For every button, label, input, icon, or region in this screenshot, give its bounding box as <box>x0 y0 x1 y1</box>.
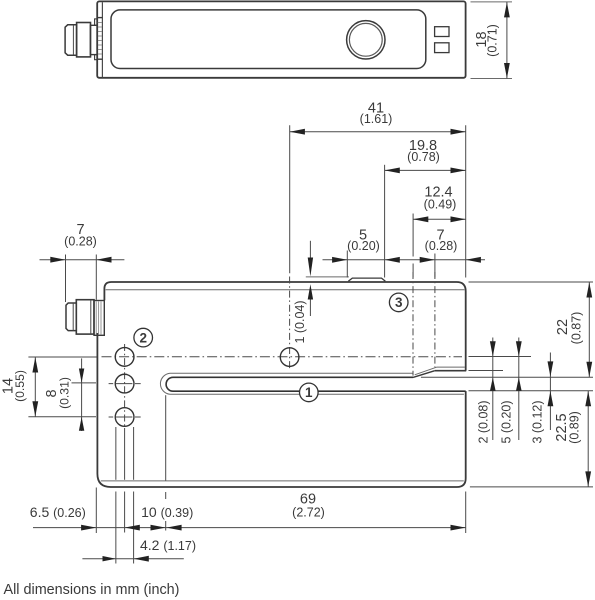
svg-text:5 (0.20): 5 (0.20) <box>500 400 514 443</box>
front view inner bottom seam line <box>101 480 464 482</box>
svg-text:(0.49): (0.49) <box>424 197 457 211</box>
front view connector nut <box>76 300 94 334</box>
extension line connector cap left <box>65 255 67 303</box>
dimension 2 line <box>492 338 494 441</box>
dimension 19.8 line <box>385 169 466 171</box>
svg-text:(0.71): (0.71) <box>486 24 500 57</box>
svg-text:All dimensions in mm (inch): All dimensions in mm (inch) <box>4 582 180 598</box>
svg-text:4.2 (1.17): 4.2 (1.17) <box>140 537 196 553</box>
front view bump extension thin line <box>306 276 349 278</box>
dimension 18 (0.71) line <box>506 2 508 79</box>
dimension 18 (0.71) extension line bottom <box>471 78 513 80</box>
dimension 1 (0.04) upper arrow line <box>309 241 311 259</box>
front view lower body outline (right edge + bottom + left edge) <box>97 333 465 487</box>
top view housing outline <box>97 1 465 77</box>
top view connector cap inner line <box>72 25 74 55</box>
extension line hole centre down <box>124 428 126 480</box>
dimension 69 left arrow (pointing left at slot line) <box>166 525 181 531</box>
front view inner top seam line <box>106 289 465 291</box>
front view mouth inner thin line <box>437 366 465 368</box>
svg-text:2: 2 <box>139 330 147 345</box>
mounting hole centerline vertical <box>124 344 126 428</box>
front view reference bump on top edge <box>348 278 385 281</box>
extension line hole tangent right <box>133 427 135 480</box>
dimension 10 right arrow (pointing right at slot line) <box>151 525 166 531</box>
dimension 3 arrows <box>548 361 554 376</box>
mounting hole 3 <box>115 408 134 427</box>
top view end cap seam line <box>101 2 103 77</box>
dimension 7 arrows (outside) <box>420 257 435 263</box>
svg-text:(0.87): (0.87) <box>570 312 584 345</box>
front view connector nut inner line <box>90 300 92 334</box>
mounting hole 2 <box>115 374 134 393</box>
sensing point circle <box>280 348 299 367</box>
extension line hole3 <box>28 416 96 418</box>
dimension 3 line <box>549 353 551 431</box>
extension line body bottom right (H5) <box>470 486 593 488</box>
front view upper outline (top edge + right edge of upper arm) <box>104 282 465 371</box>
balloon label 2 <box>134 328 153 347</box>
dimension 5 arrows (right side) <box>516 341 522 356</box>
svg-text:3: 3 <box>395 295 403 310</box>
dimension 6.5 arrow (pointing right at body edge line) <box>81 525 96 531</box>
front view mouth bottom edge of upper arm <box>435 370 466 372</box>
svg-text:(0.55): (0.55) <box>13 370 27 402</box>
dimension 18 (0.71) extension line top <box>471 1 513 3</box>
dimension 7 right arrow (pointing left at flange line) <box>96 257 111 263</box>
balloon label 1 <box>300 383 319 402</box>
top view potentiometer outer circle <box>347 21 385 59</box>
dimension 14 arrow down <box>32 401 38 416</box>
dimension 41 line <box>290 131 466 133</box>
fork slot inner contour (thick) <box>166 377 466 391</box>
sensing point vertical centerline <box>289 277 291 370</box>
dimension 4.2 left arrow <box>103 556 116 561</box>
front view connector flange thread hatch <box>96 301 101 334</box>
svg-text:(1.61): (1.61) <box>360 112 393 126</box>
dimension 4.2 line <box>82 558 183 560</box>
extension line optical axis right (H1) <box>469 356 532 358</box>
extension line slot left end down <box>165 395 167 480</box>
balloon label 3 <box>389 293 408 312</box>
dimension 5 / 7 line <box>323 259 466 261</box>
extension line slot top right (H3) <box>421 376 593 378</box>
dimension 7 line (left) <box>40 259 125 261</box>
dimension 12.4 line <box>413 218 466 220</box>
dimension 5 arrows (outside) <box>332 257 347 263</box>
fork slot outer contour (thin) <box>160 373 463 394</box>
extension line hole tangent left <box>115 427 117 480</box>
extension line bump left end <box>346 251 348 278</box>
top view connector nut <box>77 23 91 57</box>
dimension 22.5 arrow up <box>585 391 591 406</box>
top view potentiometer inner circle <box>349 23 382 56</box>
dimension 1 arrow up to top edge <box>308 284 313 299</box>
extension line body top right <box>469 281 594 283</box>
top view thread hatch <box>98 23 102 55</box>
dimension 18 arrow up <box>504 2 510 17</box>
svg-text:1 (0.04): 1 (0.04) <box>293 300 307 343</box>
front view connector cap inner line <box>72 303 74 330</box>
dimension 14 arrow up <box>32 357 38 372</box>
dimension 22.5 line <box>587 391 589 487</box>
top view LED window 1 <box>435 27 449 37</box>
extension line body left edge down <box>95 488 97 534</box>
dimension 22.5 arrow down <box>585 471 591 486</box>
top view LED window 2 <box>435 43 449 53</box>
svg-text:(0.28): (0.28) <box>425 239 458 253</box>
dimension 19.8 arrows <box>385 168 400 174</box>
dimension 22 arrow up <box>586 282 592 297</box>
svg-text:(2.72): (2.72) <box>292 505 325 519</box>
extension line chamfer line1 <box>412 214 414 257</box>
front view connector flange <box>94 301 104 336</box>
svg-text:(0.89): (0.89) <box>568 411 582 444</box>
svg-text:(0.31): (0.31) <box>58 377 72 409</box>
dimension 6.5 / 10 / 69 line <box>33 527 466 529</box>
top view connector flange <box>90 25 97 54</box>
top view connector cap <box>65 25 77 55</box>
extension line mouth bottom right (H2) <box>469 370 504 372</box>
top view end cap notch tick upper <box>97 17 102 19</box>
top view connector mounting tab lower <box>95 55 98 60</box>
top view face rounded rect <box>111 10 426 69</box>
svg-text:2 (0.08): 2 (0.08) <box>476 400 490 443</box>
extension line body right edge upward <box>465 125 467 277</box>
dimension 1 arrow down to bump line <box>308 258 313 277</box>
extension line lower arm top right (H4) <box>469 390 594 392</box>
svg-text:3 (0.12): 3 (0.12) <box>531 400 545 443</box>
dimension 41 arrows <box>290 129 305 135</box>
front view connector cap <box>66 303 76 331</box>
chamfer dash-dot line 1 <box>412 272 414 376</box>
dimension 1 (0.04) lower arrow line <box>309 299 311 317</box>
front view chamfer outer slant <box>413 371 435 378</box>
mounting hole 1 <box>115 348 134 367</box>
dimension 8 line <box>81 358 83 431</box>
dimension 4.2 right arrow <box>134 556 149 562</box>
dimension 22 arrow down <box>586 362 592 377</box>
extension line hole2 <box>72 382 97 384</box>
front view chamfer inner slant <box>415 367 437 375</box>
mounting hole 3 crosshair <box>109 416 141 418</box>
dimension 8 arrow up to hole3 line <box>79 417 84 431</box>
dimension 69 right arrow <box>451 525 466 531</box>
svg-text:1: 1 <box>305 385 313 400</box>
dimension 14 line <box>34 357 36 417</box>
dimension 7 left arrow (pointing right at cap line) <box>50 257 65 263</box>
dimension 22 line <box>588 282 590 377</box>
top view end cap notch tick lower <box>97 58 102 60</box>
dimension 8 arrow down to hole2 line <box>79 369 84 383</box>
svg-text:(0.28): (0.28) <box>64 235 97 249</box>
dimension 12.4 arrows <box>413 216 428 222</box>
extension line hole1 <box>28 356 96 358</box>
dimension 5 line (right side) <box>518 338 520 441</box>
dimension 10 left arrow (pointing left at hole centre line) <box>125 525 140 531</box>
svg-text:(0.78): (0.78) <box>407 150 440 164</box>
extension line connector flange left <box>95 255 97 300</box>
svg-text:6.5 (0.26): 6.5 (0.26) <box>30 504 86 520</box>
extension line body right edge down <box>465 492 467 534</box>
extension line bump right end <box>384 165 386 278</box>
extension line chamfer line2 <box>434 254 436 278</box>
chamfer dash-dot line 2 <box>434 272 436 367</box>
extension line sensing centre (41 left bound) <box>289 125 291 273</box>
main horizontal centerline <box>102 356 463 358</box>
dimension 18 arrow down <box>504 63 510 78</box>
svg-text:(0.20): (0.20) <box>347 239 380 253</box>
mounting hole 2 crosshair <box>109 383 141 385</box>
dimension 2 arrows <box>490 341 496 356</box>
top view connector mounting tab upper <box>95 19 98 25</box>
svg-text:10 (0.39): 10 (0.39) <box>141 504 193 520</box>
